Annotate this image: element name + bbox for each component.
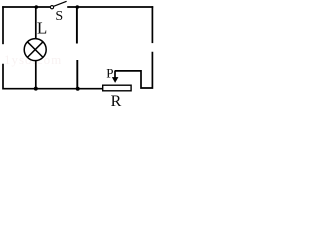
- background: [0, 0, 156, 109]
- wire top right segment: [67, 6, 153, 8]
- node junction dot bottom-left: [34, 87, 38, 91]
- svg-text:R: R: [111, 93, 122, 109]
- switch S blade: [54, 1, 67, 6]
- lamp L cross diagonal 1: [27, 42, 43, 58]
- wire middle branch upper segment: [76, 7, 78, 44]
- wire top left segment: [2, 6, 50, 8]
- rheostat slider arrowhead: [112, 77, 119, 83]
- lamp L circle: [24, 39, 46, 61]
- rheostat R box: [103, 85, 131, 91]
- node junction dot top-left: [35, 5, 39, 9]
- svg-text:L: L: [37, 19, 47, 38]
- svg-text:P: P: [106, 65, 113, 80]
- wire lamp branch lower: [35, 61, 37, 89]
- wire left edge upper segment: [2, 6, 4, 44]
- switch S pivot circle: [50, 6, 53, 9]
- node junction dot bottom-middle: [76, 87, 80, 91]
- wire lamp branch upper: [35, 7, 37, 38]
- wire middle branch lower segment: [76, 60, 78, 89]
- svg-text:S: S: [55, 9, 63, 24]
- rheostat slider shaft: [114, 71, 116, 78]
- wire left edge lower segment + bottom wire: [3, 64, 103, 89]
- wire right edge upper segment: [151, 6, 153, 43]
- lamp L cross diagonal 2: [27, 42, 43, 58]
- node junction dot top-middle: [76, 5, 80, 9]
- wire right edge lower segment + step to slider arm: [115, 52, 153, 88]
